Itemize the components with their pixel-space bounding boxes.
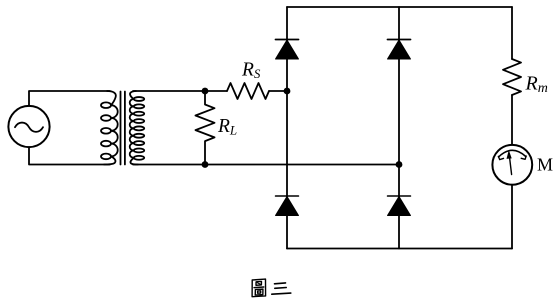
resistor RL (196, 91, 215, 165)
sine wave inside source (15, 123, 43, 132)
diode D2 top-right triangle (388, 40, 411, 59)
transformer T1 primary winding (107, 91, 116, 105)
meter scale arc left tick (498, 156, 503, 159)
wire secondary bottom to bridge right leg (133, 164, 399, 166)
bridge left leg wire (286, 7, 288, 249)
svg-text:M: M (537, 154, 553, 174)
diode D4 bottom-right triangle (388, 197, 411, 216)
resistor Rm (503, 59, 521, 95)
resistor RS (227, 83, 269, 99)
node D junction dot on bridge right leg (396, 161, 403, 168)
bridge top rail (287, 6, 512, 8)
bridge right leg wire (398, 7, 400, 249)
node A junction dot (202, 88, 209, 95)
wire RS to bridge left leg (269, 90, 287, 92)
meter needle (510, 157, 512, 175)
wire meter to bottom rail (511, 185, 513, 249)
diode D3 bottom-left triangle (276, 197, 299, 216)
caption 三 (three) (272, 283, 291, 294)
meter M circle (492, 145, 532, 185)
bridge bottom rail (287, 248, 512, 250)
wire node A to resistor RS (205, 90, 227, 92)
wire right branch top (511, 7, 513, 59)
svg-text:Rm: Rm (525, 73, 548, 97)
diode D4 bottom-right cathode bar (388, 195, 411, 197)
transformer T1 secondary winding (130, 91, 136, 99)
svg-text:RL: RL (217, 116, 237, 138)
wire source top (29, 91, 110, 106)
node C junction dot (bottom of RL) (202, 161, 209, 168)
svg-text:RS: RS (241, 60, 261, 82)
caption 圖 (Figure) (252, 279, 267, 297)
transformer core (120, 92, 122, 165)
diode D2 top-right cathode bar (388, 39, 411, 41)
wire source bottom (29, 147, 110, 164)
meter scale arc right tick (521, 156, 526, 159)
wire Rm to meter (511, 95, 513, 145)
AC source V1 (8, 106, 49, 147)
meter scale arc (499, 150, 526, 157)
diode D1 top-left cathode bar (276, 39, 299, 41)
diode D3 bottom-left cathode bar (276, 195, 299, 197)
meter needle arrowhead (507, 150, 512, 159)
diode D1 top-left triangle (276, 40, 299, 59)
node B junction dot on bridge left leg (284, 88, 291, 95)
wire secondary top to node A (133, 90, 205, 92)
